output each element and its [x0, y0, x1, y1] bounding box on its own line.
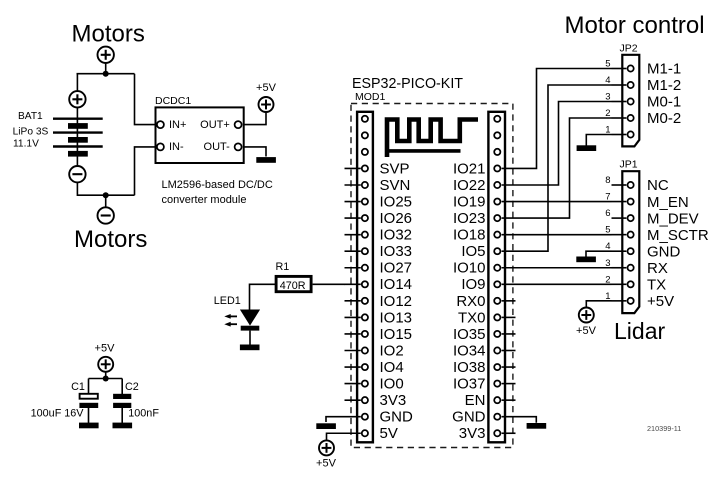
wire IO10 to JP1.3 [502, 267, 612, 269]
svg-text:LiPo 3S: LiPo 3S [13, 127, 49, 138]
pin IN+ [157, 121, 164, 128]
svg-text:IO13: IO13 [380, 309, 413, 326]
pin 5V (left row 20) [362, 430, 368, 436]
pin 2 JP2 stub [612, 117, 627, 119]
wire [88, 408, 90, 423]
pin IO0 (left row 17) [362, 381, 368, 387]
wire (pin stub) [345, 333, 361, 335]
svg-text:Motors: Motors [74, 226, 147, 253]
svg-text:+5V: +5V [316, 458, 337, 470]
wire IO9 to JP1.2 [502, 283, 612, 285]
svg-text:LED1: LED1 [214, 295, 241, 307]
wire IO18 to JP1.5 [502, 234, 612, 236]
pin IO15 (left row 14) [362, 331, 368, 337]
wire [105, 372, 107, 378]
svg-text:IO22: IO22 [453, 177, 486, 194]
svg-text:3V3: 3V3 [380, 392, 407, 409]
wire (pin stub) [345, 250, 361, 252]
wire (pin stub) [502, 383, 516, 385]
wire (pin stub) [502, 399, 516, 401]
svg-text:GND: GND [452, 409, 486, 426]
pin IO13 (left row 13) [362, 314, 368, 320]
pin SVP (left row 4) [362, 165, 368, 171]
pin IO21 (right row 4) [494, 165, 500, 171]
wire [77, 183, 134, 195]
svg-text:ESP32-PICO-KIT: ESP32-PICO-KIT [352, 75, 463, 92]
wire (pin stub) [345, 234, 361, 236]
svg-text:M0-2: M0-2 [647, 110, 681, 127]
svg-text:IO12: IO12 [380, 293, 413, 310]
pin IO25 (left row 6) [362, 198, 368, 204]
module MOD1 right header [488, 112, 505, 443]
pin IO4 (left row 16) [362, 364, 368, 370]
module MOD1 left header [357, 112, 373, 443]
pin IO22 (right row 5) [494, 182, 500, 188]
wire [88, 379, 90, 395]
svg-text:SVP: SVP [380, 160, 410, 177]
pin nc (right row 1) [494, 116, 500, 122]
wire (pin stub) [345, 399, 361, 401]
pin 7 JP1 stub [612, 201, 627, 203]
svg-text:IO26: IO26 [380, 210, 413, 227]
svg-text:OUT-: OUT- [204, 141, 231, 153]
svg-text:+5V: +5V [256, 82, 277, 94]
svg-text:C2: C2 [125, 381, 139, 393]
svg-text:SVN: SVN [380, 177, 411, 194]
pin IO14 (left row 11) [362, 281, 368, 287]
wire (pin stub) [345, 267, 361, 269]
svg-text:C1: C1 [71, 381, 85, 393]
pin 2 JP1 stub [612, 283, 627, 285]
pin IO23 (right row 7) [494, 215, 500, 221]
svg-text:IO21: IO21 [453, 160, 486, 177]
svg-text:470R: 470R [280, 280, 306, 292]
pin IO10 (right row 10) [494, 265, 500, 271]
wire IO23 to JP2.2 [502, 118, 612, 218]
svg-text:RX: RX [647, 260, 668, 277]
svg-text:IO27: IO27 [380, 260, 413, 277]
pin 3V3 (left row 18) [362, 397, 368, 403]
svg-text:210399-11: 210399-11 [647, 424, 681, 433]
wire (pin stub) [502, 333, 516, 335]
pin 6 JP1 stub [612, 217, 627, 219]
wire (pin stub) [345, 217, 361, 219]
svg-text:M0-1: M0-1 [647, 94, 681, 111]
pin nc (right row 2) [494, 132, 500, 138]
pin 5 JP2 stub [612, 68, 627, 70]
ground (JP2 pin1) [577, 145, 597, 151]
svg-text:IO37: IO37 [453, 376, 486, 393]
svg-text:IO14: IO14 [380, 276, 413, 293]
wire (pin stub) [345, 201, 361, 203]
pin IO19 (right row 6) [494, 198, 500, 204]
wire (pin stub) [345, 283, 361, 285]
antenna meander [387, 120, 478, 158]
wire [76, 108, 78, 166]
wire IO5 to JP2.4 [502, 85, 612, 251]
pin OUT+ [235, 121, 242, 128]
svg-text:IO18: IO18 [453, 227, 486, 244]
wire GND left [326, 417, 361, 422]
ground (MOD1 right GND) [527, 423, 547, 429]
battery BAT1 cells [53, 117, 103, 119]
pin 3V3 (right row 20) [494, 430, 500, 436]
supply +5V (JP1 pin1) [579, 308, 594, 323]
svg-text:IO33: IO33 [380, 243, 413, 260]
svg-text:EN: EN [465, 392, 486, 409]
wire [135, 147, 156, 195]
svg-text:100nF: 100nF [128, 408, 159, 420]
wire [105, 195, 107, 207]
pin IO37 (right row 17) [494, 381, 500, 387]
svg-text:M1-2: M1-2 [647, 77, 681, 94]
battery BAT1 terminal - [69, 166, 85, 182]
ground (C2) [113, 423, 133, 429]
svg-text:RX0: RX0 [456, 293, 485, 310]
pin IO12 (left row 12) [362, 298, 368, 304]
svg-text:+5V: +5V [576, 325, 597, 337]
svg-text:IO15: IO15 [380, 326, 413, 343]
svg-text:JP1: JP1 [620, 159, 638, 171]
supply +5V (DCDC out) [259, 97, 274, 112]
svg-text:5V: 5V [380, 425, 398, 442]
svg-text:DCDC1: DCDC1 [155, 95, 191, 107]
svg-text:Motor control: Motor control [565, 12, 705, 39]
wire [121, 408, 123, 423]
pin 8 JP1 stub [612, 184, 627, 186]
svg-text:3V3: 3V3 [459, 425, 486, 442]
wire [249, 331, 251, 345]
pin TX0 (right row 13) [494, 314, 500, 320]
terminal - (motors bottom) [98, 207, 114, 223]
wire [313, 283, 345, 285]
svg-text:converter module: converter module [162, 194, 247, 206]
pin GND (right row 19) [494, 414, 500, 420]
wire [244, 147, 266, 157]
wire (pin stub) [345, 316, 361, 318]
svg-text:IO23: IO23 [453, 210, 486, 227]
svg-text:M_SCTR: M_SCTR [647, 227, 709, 244]
wire JP2.1 to gnd [586, 135, 611, 146]
svg-text:M_DEV: M_DEV [647, 210, 699, 227]
svg-text:6: 6 [605, 208, 610, 219]
pin IO26 (left row 7) [362, 215, 368, 221]
pin 1 JP2 stub [612, 134, 627, 136]
svg-text:IO4: IO4 [380, 359, 404, 376]
svg-text:IO19: IO19 [453, 193, 486, 210]
svg-text:M1-1: M1-1 [647, 61, 681, 78]
wire IO22 to JP2.3 [502, 102, 612, 186]
svg-text:IO34: IO34 [453, 342, 486, 359]
svg-text:100uF 16V: 100uF 16V [31, 408, 85, 420]
svg-text:+5V: +5V [95, 343, 116, 355]
wire (pin stub) [345, 184, 361, 186]
pin OUT- [235, 143, 242, 150]
node junction top [103, 71, 109, 77]
pin 3 JP1 stub [612, 267, 627, 269]
svg-text:BAT1: BAT1 [18, 111, 43, 122]
node junction bottom [103, 192, 109, 198]
svg-text:IO32: IO32 [380, 227, 413, 244]
wire (pin stub) [502, 300, 516, 302]
svg-text:IO5: IO5 [461, 243, 485, 260]
pin nc (left row 3) [362, 149, 368, 155]
pin nc (left row 2) [362, 132, 368, 138]
ground (DCDC out-) [256, 157, 276, 163]
svg-text:IO2: IO2 [380, 342, 404, 359]
pin 4 JP2 stub [612, 84, 627, 86]
pin SVN (left row 5) [362, 182, 368, 188]
svg-text:IN+: IN+ [169, 119, 186, 131]
pin 5 JP1 stub [612, 234, 627, 236]
svg-text:IO9: IO9 [461, 276, 485, 293]
pin IN- [157, 143, 164, 150]
svg-text:IO0: IO0 [380, 376, 404, 393]
wire (pin stub) [345, 167, 361, 169]
wire [250, 284, 276, 310]
svg-text:JP2: JP2 [620, 43, 638, 55]
svg-text:IO35: IO35 [453, 326, 486, 343]
pin IO27 (left row 10) [362, 265, 368, 271]
wire GND right [502, 417, 537, 423]
pin IO35 (right row 14) [494, 331, 500, 337]
pin GND (left row 19) [362, 414, 368, 420]
svg-text:IO25: IO25 [380, 193, 413, 210]
wire [76, 74, 78, 91]
pin IO33 (left row 9) [362, 248, 368, 254]
svg-text:8: 8 [605, 175, 610, 186]
svg-text:IO10: IO10 [453, 260, 486, 277]
wire IO21 to JP2.5 [502, 69, 612, 169]
wire (pin stub) [345, 383, 361, 385]
svg-text:MOD1: MOD1 [355, 91, 385, 103]
ground (C1) [79, 423, 99, 429]
wire [89, 378, 123, 380]
ground (LED) [240, 345, 260, 351]
ground (MOD1 left GND) [316, 423, 336, 429]
svg-text:IO38: IO38 [453, 359, 486, 376]
svg-text:TX: TX [647, 277, 666, 294]
pin IO38 (right row 16) [494, 364, 500, 370]
supply +5V (MOD1 5V pin) [319, 440, 334, 455]
pin nc (right row 3) [494, 149, 500, 155]
pin IO5 (right row 9) [494, 248, 500, 254]
pin IO9 (right row 11) [494, 281, 500, 287]
svg-text:11.1V: 11.1V [13, 139, 39, 150]
wire JP1.4 to gnd [586, 251, 612, 256]
svg-text:OUT+: OUT+ [200, 119, 230, 131]
wire IO19 to JP1.7 [502, 201, 612, 203]
module DCDC1 body [156, 107, 244, 163]
node junction caps [103, 376, 109, 382]
wire [121, 379, 123, 395]
svg-text:R1: R1 [276, 261, 290, 273]
ground (JP1 pin4) [576, 257, 596, 263]
wire [244, 112, 266, 125]
svg-text:TX0: TX0 [458, 309, 486, 326]
terminal + (motors top) [98, 47, 114, 63]
battery BAT1 terminal + [69, 91, 85, 107]
module MOD1 dashed outline [351, 104, 513, 448]
svg-text:Motors: Motors [72, 21, 145, 48]
svg-text:LM2596-based DC/DC: LM2596-based DC/DC [162, 179, 273, 191]
svg-text:IN-: IN- [169, 141, 184, 153]
pin nc (left row 1) [362, 116, 368, 122]
pin IO18 (right row 8) [494, 232, 500, 238]
pin IO34 (right row 15) [494, 347, 500, 353]
wire [105, 63, 107, 73]
pin EN (right row 18) [494, 397, 500, 403]
svg-text:GND: GND [380, 409, 414, 426]
wire (pin stub) [502, 432, 516, 434]
wire JP1.1 to +5V [586, 301, 611, 308]
pin IO2 (left row 15) [362, 347, 368, 353]
pin 4 JP1 stub [612, 250, 627, 252]
LED arrows [229, 315, 237, 317]
wire (pin stub) [345, 350, 361, 352]
wire (pin stub) [502, 366, 516, 368]
svg-text:GND: GND [647, 243, 681, 260]
wire (pin stub) [502, 316, 516, 318]
wire (pin stub) [502, 350, 516, 352]
wire (pin stub) [345, 366, 361, 368]
pin 3 JP2 stub [612, 101, 627, 103]
wire [77, 73, 135, 75]
pin 1 JP1 stub [612, 300, 627, 302]
pin RX0 (right row 12) [494, 298, 500, 304]
svg-text:NC: NC [647, 177, 669, 194]
svg-text:M_EN: M_EN [647, 194, 689, 211]
wire [135, 74, 156, 125]
wire (pin stub) [345, 300, 361, 302]
svg-text:Lidar: Lidar [614, 318, 665, 344]
svg-text:+5V: +5V [647, 293, 674, 310]
pin IO32 (left row 8) [362, 232, 368, 238]
wire 5V left [327, 433, 361, 441]
